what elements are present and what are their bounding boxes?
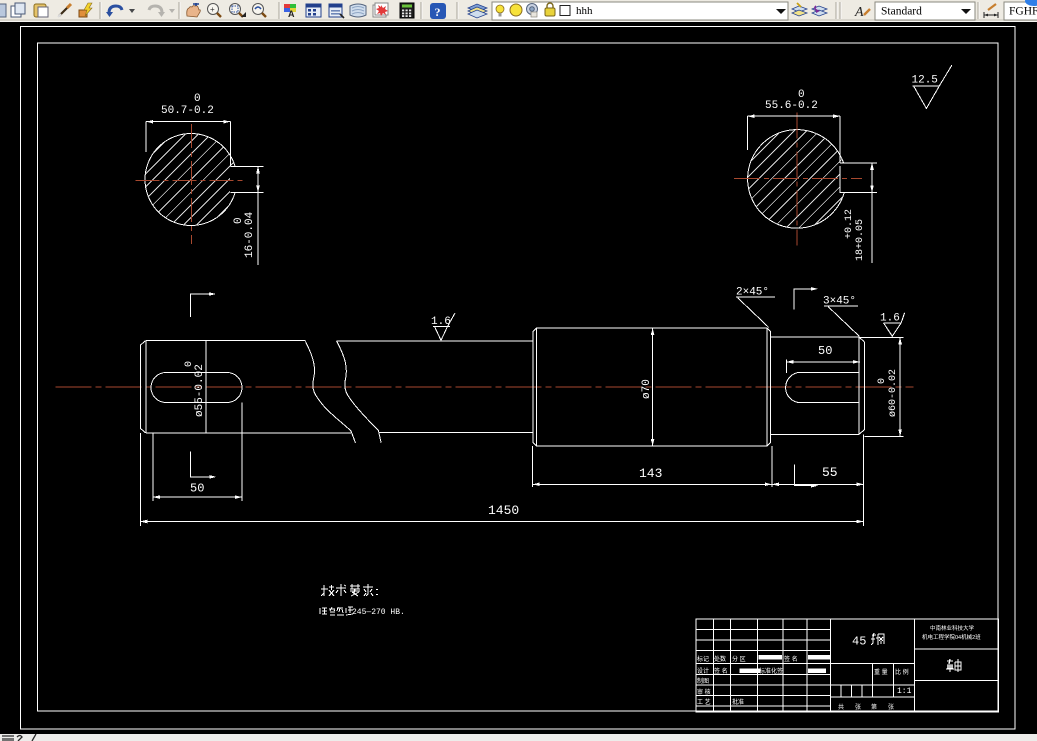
svg-text:0: 0 xyxy=(877,378,888,384)
icon: markup xyxy=(373,5,386,17)
svg-text:签 名: 签 名 xyxy=(784,655,798,663)
svg-text:处数: 处数 xyxy=(714,655,726,663)
middle section lines xyxy=(337,340,534,342)
svg-text:第: 第 xyxy=(871,703,877,711)
blue blob top right xyxy=(1025,0,1037,6)
left keyway slot (stadium) xyxy=(151,373,242,403)
svg-text:张: 张 xyxy=(855,703,861,711)
section arrow bottom-left xyxy=(191,451,210,477)
svg-text:45: 45 xyxy=(852,635,866,649)
svg-text:A: A xyxy=(288,9,295,19)
tech requirements heading (hand-drawn CJK strokes) xyxy=(321,584,377,596)
svg-text:?: ? xyxy=(435,5,441,19)
icon: pan hand xyxy=(187,6,201,17)
icon: zoom window xyxy=(230,4,241,15)
svg-text:1450: 1450 xyxy=(488,503,519,518)
bulb xyxy=(496,5,504,13)
svg-text:143: 143 xyxy=(639,466,662,481)
svg-text:12.5: 12.5 xyxy=(912,75,938,87)
shaft left section outline (o55) xyxy=(140,341,533,443)
right section arrow bottom xyxy=(794,465,811,486)
icon: calculator xyxy=(400,3,414,18)
style combobox xyxy=(875,2,975,20)
tech requirements body line xyxy=(320,607,353,615)
svg-text:50: 50 xyxy=(818,344,832,358)
svg-text:18+0.05: 18+0.05 xyxy=(855,219,866,261)
section arrow top-left (cut indicator) xyxy=(190,294,209,317)
icon: zoom realtime xyxy=(208,4,219,15)
icon: layer manager xyxy=(468,4,487,18)
svg-text:标准化签: 标准化签 xyxy=(759,667,783,675)
svg-text:2×45°: 2×45° xyxy=(736,287,769,299)
title block grid xyxy=(696,619,998,712)
dim style combobox (cut) xyxy=(1004,2,1037,20)
icon: match prop xyxy=(79,10,87,17)
icon: brush xyxy=(59,7,68,16)
svg-text:50: 50 xyxy=(190,482,204,496)
svg-text:ø55-0.02: ø55-0.02 xyxy=(194,364,206,417)
dimension 50 (left keyway) xyxy=(153,403,242,502)
title block labels xyxy=(697,655,909,711)
svg-text:A: A xyxy=(854,5,864,20)
right section hatching xyxy=(746,128,847,229)
svg-text:0: 0 xyxy=(194,93,201,105)
svg-text:245—270 HB.: 245—270 HB. xyxy=(352,608,405,617)
padlock xyxy=(545,8,555,16)
status strip at bottom xyxy=(0,734,1037,741)
icon: sheet set xyxy=(350,4,366,17)
layer combobox xyxy=(492,2,788,20)
chamfer label 3x45 xyxy=(824,306,860,336)
svg-text:共: 共 xyxy=(838,703,844,711)
dimension 16-0.04 xyxy=(258,166,264,265)
roughness 1.6 on middle section xyxy=(433,313,455,340)
right circle centerlines xyxy=(734,113,862,246)
svg-text:ø60-0.02: ø60-0.02 xyxy=(888,369,899,417)
svg-text:分 区: 分 区 xyxy=(732,655,746,663)
svg-text:比 例: 比 例 xyxy=(895,668,909,676)
left section hatching xyxy=(144,132,238,226)
svg-text:55: 55 xyxy=(822,465,838,480)
o70 section box with chamfered corners xyxy=(533,328,771,446)
icon: help xyxy=(430,3,446,19)
combo dropdown xyxy=(776,9,786,14)
dimension 143 xyxy=(533,446,772,487)
right section view: hatched circle xyxy=(748,130,847,229)
icon: designcenter xyxy=(306,4,321,17)
dimension 1450 xyxy=(140,433,863,526)
svg-text:工 艺: 工 艺 xyxy=(697,698,711,706)
redaction bars in title block xyxy=(739,655,829,673)
svg-text:1.6: 1.6 xyxy=(880,313,900,325)
svg-text:签 名: 签 名 xyxy=(714,667,728,675)
icon: dim style xyxy=(984,12,998,18)
svg-text:机电工程学院04机械2班: 机电工程学院04机械2班 xyxy=(922,633,981,641)
svg-text:设计: 设计 xyxy=(697,667,709,675)
svg-text:FGHF: FGHF xyxy=(1009,6,1037,18)
svg-text:3×45°: 3×45° xyxy=(823,296,856,308)
dimension 18 +0.12/+0.05 xyxy=(872,163,877,263)
svg-text:批准: 批准 xyxy=(732,698,744,706)
svg-text:Standard: Standard xyxy=(881,6,922,18)
dimension 50 (right keyway) xyxy=(786,360,860,373)
right section arrow top (cut indicator) xyxy=(794,289,811,310)
part name zhou (axle) hand-drawn xyxy=(946,659,961,672)
icon: tool palettes xyxy=(329,4,342,17)
partial icon at left edge xyxy=(0,4,6,17)
dimension 50.7-0.2 xyxy=(146,122,230,167)
icon: layer previous xyxy=(812,6,827,16)
right keyway slot (open to end) xyxy=(786,372,801,402)
color swatch xyxy=(560,6,570,16)
o60 right section outline xyxy=(771,337,865,434)
roughness 1.6 right xyxy=(883,313,904,336)
icon: copy xyxy=(11,6,21,17)
left keyway notch rectangle xyxy=(230,166,258,192)
label o55-0.02 rotated xyxy=(184,361,206,417)
svg-text:1:1: 1:1 xyxy=(897,687,912,696)
gear circle xyxy=(527,4,538,15)
surface roughness 12.5 symbol xyxy=(913,65,952,108)
shaft main centerline xyxy=(56,386,914,388)
icon: zoom previous xyxy=(253,4,264,15)
svg-text:hhh: hhh xyxy=(576,5,593,17)
dimension 55 xyxy=(772,434,864,526)
command line text fragment (clipped) xyxy=(0,734,60,741)
svg-text:标记: 标记 xyxy=(697,655,709,663)
svg-text:1.6: 1.6 xyxy=(431,316,451,328)
chamfer label 2x45 xyxy=(736,297,775,328)
svg-text:16-0.04: 16-0.04 xyxy=(244,211,256,258)
svg-text:ø70: ø70 xyxy=(641,379,653,399)
svg-text:张: 张 xyxy=(888,703,894,711)
svg-text:审 核: 审 核 xyxy=(697,688,711,696)
break line 2 xyxy=(337,341,382,443)
left circle centerlines xyxy=(136,124,243,244)
icon: make object layer current xyxy=(792,6,807,16)
svg-text:55.6-0.2: 55.6-0.2 xyxy=(765,100,818,112)
icon: redo (disabled) xyxy=(149,6,162,13)
svg-text:中南林业科技大学: 中南林业科技大学 xyxy=(930,624,975,632)
icon: properties xyxy=(284,4,290,8)
dimension 55.6-0.2 xyxy=(748,116,840,163)
right keyway notch rectangle xyxy=(840,163,872,193)
svg-text:50.7-0.2: 50.7-0.2 xyxy=(161,105,214,117)
svg-text:制图: 制图 xyxy=(697,677,709,685)
dimension o70 (vertical inside) xyxy=(652,328,654,446)
dimension o60-0.02 xyxy=(859,337,904,436)
school name two tiny lines xyxy=(922,624,981,641)
svg-text:+0.12: +0.12 xyxy=(844,209,855,239)
break line 1 xyxy=(305,341,355,442)
icon: paste xyxy=(34,4,46,17)
section cut line through left keyway xyxy=(205,341,207,434)
sun circle xyxy=(510,4,522,16)
svg-text:+: + xyxy=(210,5,215,14)
icon: undo xyxy=(109,6,122,13)
svg-text:重 量: 重 量 xyxy=(874,668,888,676)
